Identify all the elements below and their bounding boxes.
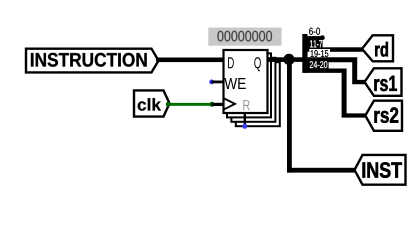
wire from INSTRUCTION to register D input <box>157 58 223 63</box>
splitter leg 6-0 <box>308 36 323 39</box>
bit label 19-15 badge (white) <box>309 49 330 57</box>
black clock pin stub <box>212 103 226 106</box>
register label WE <box>224 78 245 89</box>
floating-input blue dot at WE pin <box>209 80 214 85</box>
register shadow copy 2 <box>227 53 271 117</box>
green wire-end dot at register clock pin <box>209 102 214 107</box>
leg 6-0 end blob <box>320 35 325 40</box>
register label R (gray) <box>243 100 249 110</box>
register label D <box>228 57 234 68</box>
register clock triangle <box>224 99 235 110</box>
input label INSTRUCTION <box>26 49 159 73</box>
bit label 11-7 text <box>310 40 322 47</box>
bit label 6-0 <box>309 28 320 35</box>
wire-end dot (green) at clk tip <box>166 102 171 107</box>
wire to INST label <box>287 168 356 173</box>
register label Q <box>254 57 261 71</box>
splitter spine <box>302 34 307 73</box>
splitter leg 19-15 wire <box>304 57 365 84</box>
bit label 19-15 text <box>311 50 329 57</box>
output label INST <box>355 155 406 185</box>
register shadow copy 3 <box>231 58 275 122</box>
bit label 24-20 text <box>310 61 328 68</box>
floating blue dot at reset pin <box>242 124 247 129</box>
pin dot at INSTRUCTION tip <box>156 58 160 62</box>
splitter leg 24-20 wire <box>304 69 365 118</box>
bit label 11-7 badge <box>304 37 323 48</box>
bit label 24-20 badge <box>303 60 328 70</box>
register reset pin stub <box>244 113 246 126</box>
input label clk <box>134 90 170 116</box>
wire from junction to splitter spine <box>289 57 305 62</box>
output label rd <box>362 35 393 61</box>
wire from register Q to junction <box>268 57 290 62</box>
register shadow copy 4 (back) <box>236 62 280 126</box>
output label rs1 <box>365 68 402 96</box>
splitter leg 11-7 wire to rd <box>304 47 363 52</box>
register U1 main body <box>224 50 268 113</box>
WE pin stub <box>212 81 224 84</box>
green clock wire from clk to register <box>168 103 212 106</box>
trunk wire down from junction <box>287 59 292 172</box>
junction node <box>283 54 294 65</box>
output label rs2 <box>365 101 402 131</box>
register value display 00000000 <box>208 28 281 46</box>
